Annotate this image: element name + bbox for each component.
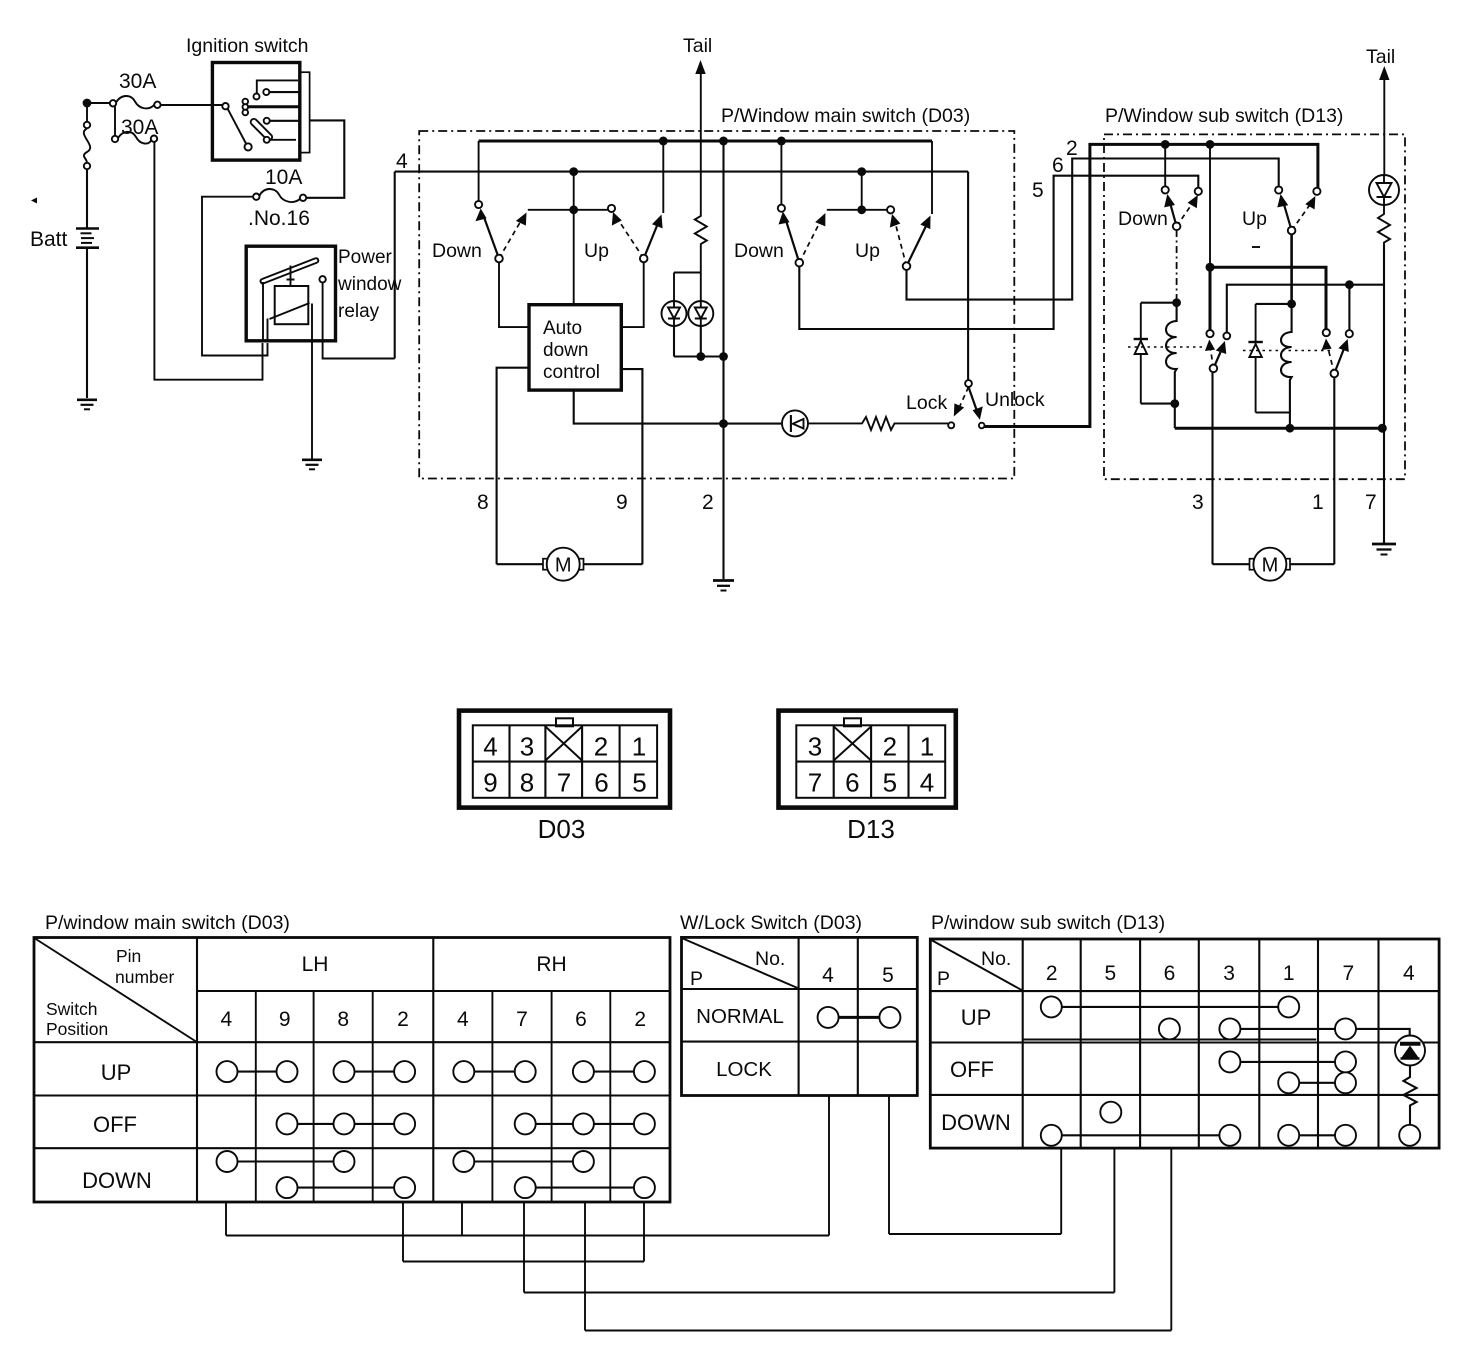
resistor R-lamp bbox=[858, 417, 898, 430]
sub bottom rail bbox=[1175, 427, 1383, 430]
wire RH6 to sub6 bbox=[585, 1148, 1171, 1330]
node dot down-relay top bbox=[1172, 298, 1181, 307]
svg-text:window: window bbox=[337, 274, 402, 295]
svg-text:1: 1 bbox=[1283, 962, 1295, 985]
svg-text:5: 5 bbox=[883, 768, 897, 798]
node dot top bus b bbox=[719, 137, 728, 146]
tail arrow center bbox=[695, 60, 705, 74]
wire battery to ground bbox=[86, 249, 88, 398]
wire fuse2 down to relay bbox=[154, 142, 262, 380]
svg-text:4: 4 bbox=[221, 1008, 233, 1031]
sub table grid bbox=[930, 939, 1439, 1148]
svg-text:2: 2 bbox=[883, 732, 897, 762]
node dot bus4 RH bbox=[857, 167, 866, 176]
main table diagonal bbox=[35, 939, 196, 1042]
svg-text:4: 4 bbox=[457, 1008, 469, 1031]
wire auto bottom to lamp rail bbox=[574, 390, 783, 424]
node dot top bus a bbox=[659, 137, 668, 146]
wire sub Up pivot to coil bbox=[1290, 234, 1293, 304]
battery feed junction node bbox=[83, 99, 92, 108]
OFF row contacts LH 9-8-2 bbox=[277, 1113, 416, 1134]
svg-text:8: 8 bbox=[477, 491, 489, 514]
RH Down lever solid bbox=[786, 219, 800, 263]
svg-text:2: 2 bbox=[594, 732, 608, 762]
relay contact bbox=[319, 276, 325, 282]
wire sub Down contact riser bbox=[1164, 144, 1166, 186]
ground relay bbox=[302, 460, 322, 470]
node dot bottom rail a bbox=[1286, 424, 1295, 433]
svg-text:5: 5 bbox=[632, 768, 646, 798]
wire pin2 common LH2-RH2 bbox=[403, 1202, 644, 1262]
tiny artifact mark bbox=[31, 198, 37, 204]
OFF row contacts RH 7-6-2 bbox=[515, 1113, 655, 1134]
up relay top rail bbox=[1256, 303, 1292, 305]
sub Down lever dashed bbox=[1177, 201, 1194, 226]
lock contact left bbox=[948, 422, 954, 428]
sub UP contacts 3-7-4 bbox=[1219, 1018, 1409, 1039]
relay coil right lead bbox=[311, 304, 313, 460]
LH Down lever dashed bbox=[499, 219, 522, 259]
svg-text:7: 7 bbox=[516, 1008, 528, 1031]
LED cathode rail bbox=[674, 326, 724, 357]
wire LED chain down to ground bbox=[1383, 245, 1385, 543]
pin1 wire bbox=[1333, 377, 1335, 564]
svg-text:number: number bbox=[115, 967, 175, 987]
sub UP contacts 2-1 bbox=[1041, 996, 1299, 1017]
LH Down lever solid bbox=[483, 215, 499, 259]
sub DOWN contacts 2-3 bbox=[1041, 1125, 1241, 1146]
svg-text:P/window main switch (D03): P/window main switch (D03) bbox=[45, 912, 290, 934]
svg-text:1: 1 bbox=[920, 732, 934, 762]
svg-text:NORMAL: NORMAL bbox=[696, 1005, 784, 1028]
connector D13 grid bbox=[796, 725, 945, 798]
ignition switch connector tab bbox=[300, 72, 310, 152]
connector D13 X cell bbox=[834, 727, 871, 761]
sub Down pivot bbox=[1173, 223, 1181, 231]
wire drop to fuse2 bbox=[114, 106, 116, 136]
svg-text:OFF: OFF bbox=[93, 1112, 137, 1137]
svg-text:5: 5 bbox=[1032, 179, 1044, 202]
svg-text:D13: D13 bbox=[847, 814, 895, 844]
svg-text:1: 1 bbox=[1312, 491, 1324, 514]
down relay coil K1 bbox=[1166, 303, 1177, 404]
wire fuse1 to ignition switch bbox=[161, 104, 226, 106]
down relay mech link bbox=[1128, 346, 1204, 348]
sub OFF contacts 1-7 bbox=[1278, 1072, 1356, 1093]
wire ignition to 10A fuse bbox=[306, 120, 344, 197]
NORMAL contacts 4-5 bbox=[818, 1007, 901, 1028]
LH Up lever dashed bbox=[617, 218, 644, 259]
sub DOWN contact 4 bbox=[1399, 1125, 1420, 1146]
svg-text:6: 6 bbox=[845, 768, 859, 798]
sub DOWN contact 5 bbox=[1100, 1102, 1121, 1123]
ignition switch output mid bbox=[249, 105, 300, 108]
RH Up pivot bbox=[903, 262, 911, 270]
fuse 10A bbox=[253, 194, 259, 200]
wire auto to pin9 bbox=[621, 369, 642, 564]
illumination lamp bbox=[782, 410, 808, 436]
svg-text:30A: 30A bbox=[121, 116, 158, 139]
node dot up-relay top bbox=[1287, 300, 1296, 309]
RH Down contact bbox=[778, 205, 785, 212]
svg-text:5: 5 bbox=[882, 964, 894, 987]
svg-text:Auto: Auto bbox=[543, 318, 582, 339]
relay contact A feed thick bbox=[1209, 144, 1211, 267]
svg-text:down: down bbox=[543, 340, 588, 361]
down relay bottom rail bbox=[1141, 404, 1175, 429]
svg-text:Ignition switch: Ignition switch bbox=[186, 35, 308, 57]
RH Up lever solid bbox=[907, 223, 928, 266]
svg-text:4: 4 bbox=[396, 150, 408, 173]
relay coil box bbox=[275, 286, 309, 324]
wire lock to sub bus 2 bbox=[985, 144, 1318, 426]
connector D03 body bbox=[459, 711, 670, 808]
ignition switch lever bbox=[228, 109, 247, 145]
ignition switch rotor contacts bbox=[243, 99, 249, 105]
window lock switch lever dashed bbox=[959, 387, 969, 409]
sub diode col4 bbox=[1395, 1036, 1425, 1066]
small dash mark bbox=[1252, 246, 1260, 248]
RH rail contact right bbox=[887, 206, 894, 213]
svg-text:Position: Position bbox=[46, 1019, 108, 1039]
svg-text:9: 9 bbox=[616, 491, 628, 514]
down relay top rail bbox=[1141, 302, 1177, 304]
svg-text:1: 1 bbox=[632, 732, 646, 762]
wire RH Down pivot to sub bus 5 bbox=[799, 176, 1198, 329]
wire resistor to LEDs bbox=[674, 250, 701, 301]
main table grid bbox=[34, 938, 670, 1203]
svg-text:M: M bbox=[555, 555, 572, 577]
main table frame bbox=[34, 938, 670, 1203]
svg-text:6: 6 bbox=[575, 1008, 587, 1031]
node dot bottom rail b bbox=[1378, 424, 1387, 433]
svg-text:D03: D03 bbox=[538, 814, 586, 844]
svg-text:Unlock: Unlock bbox=[985, 389, 1045, 411]
svg-text:Pin: Pin bbox=[116, 946, 141, 966]
node dot RH rail bbox=[857, 205, 866, 214]
sub Up contact right bbox=[1313, 188, 1320, 195]
connector D03 grid bbox=[473, 725, 657, 798]
svg-text:8: 8 bbox=[520, 768, 534, 798]
wire WLock5 to sub2 bbox=[889, 1096, 1061, 1235]
relay coil left lead bbox=[267, 319, 269, 342]
RH Down lever dashed bbox=[799, 220, 821, 263]
down relay clamp diode D1 bbox=[1134, 303, 1148, 404]
sub Down lever solid bbox=[1170, 201, 1177, 226]
power window relay box bbox=[246, 246, 335, 341]
P/Window main switch dashed box D03 bbox=[419, 131, 1014, 479]
svg-text:Batt: Batt bbox=[30, 228, 68, 251]
sub table diagonal bbox=[931, 940, 1021, 990]
svg-text:7: 7 bbox=[557, 768, 571, 798]
svg-text:P/Window sub switch (D13): P/Window sub switch (D13) bbox=[1105, 105, 1343, 127]
battery B1 bbox=[76, 229, 99, 248]
relay armature bbox=[261, 258, 319, 283]
wire node 4 riser bbox=[394, 172, 396, 359]
wire up-solid LH bbox=[662, 141, 664, 213]
svg-text:No.: No. bbox=[755, 948, 785, 970]
window lock pivot bbox=[965, 380, 972, 387]
motor RH M2 bbox=[1213, 548, 1335, 581]
sub Up lever dashed bbox=[1292, 203, 1312, 231]
top bus left drop bbox=[478, 141, 480, 201]
wire RH7 to sub5 bbox=[524, 1148, 1114, 1292]
sub Up pivot bbox=[1288, 227, 1296, 235]
top bus right drop bbox=[931, 141, 933, 214]
svg-text:3: 3 bbox=[1192, 491, 1204, 514]
LED L1 bbox=[662, 301, 687, 326]
svg-text:2: 2 bbox=[1046, 962, 1058, 985]
svg-text:4: 4 bbox=[822, 964, 834, 987]
RH Up lever dashed bbox=[895, 222, 907, 266]
svg-text:7: 7 bbox=[1342, 962, 1354, 985]
fusible link on battery line bbox=[84, 122, 90, 128]
node dot lamp rail bbox=[719, 419, 728, 428]
up relay mech link bbox=[1243, 350, 1332, 352]
svg-text:Tail: Tail bbox=[1366, 46, 1395, 68]
ignition switch lower contact a bbox=[264, 118, 270, 124]
wire LH Up pivot to auto bbox=[621, 262, 643, 327]
wire LH Down pivot to auto bbox=[499, 262, 529, 327]
fuse 30A no.1 bbox=[110, 100, 116, 106]
svg-text:4: 4 bbox=[920, 768, 934, 798]
svg-text:P/Window main switch (D03): P/Window main switch (D03) bbox=[721, 105, 970, 127]
ignition switch slot contact bbox=[251, 119, 272, 140]
svg-text:Tail: Tail bbox=[683, 35, 712, 57]
connector D03 X cell bbox=[545, 727, 582, 761]
sub LED L3 bbox=[1369, 175, 1399, 205]
relay contact switch A bbox=[1205, 330, 1230, 372]
wire RH Down contact riser bbox=[780, 141, 782, 205]
svg-text:30A: 30A bbox=[119, 70, 156, 93]
node dot bus4 LH bbox=[569, 167, 578, 176]
svg-text:Up: Up bbox=[584, 240, 609, 262]
fuse 30A no.2 bbox=[112, 136, 118, 142]
svg-text:4: 4 bbox=[483, 732, 497, 762]
wire auto to pin8 bbox=[497, 368, 529, 565]
P/Window sub switch dashed box D13 bbox=[1104, 134, 1405, 479]
connector D13 body bbox=[779, 711, 956, 808]
DOWN row contacts RH 7-2 bbox=[515, 1177, 655, 1198]
UP row contacts RH 6-2 bbox=[573, 1061, 655, 1082]
svg-text:P: P bbox=[690, 968, 703, 990]
svg-text:control: control bbox=[543, 362, 600, 383]
window lock switch lever solid bbox=[969, 387, 978, 412]
svg-text:Up: Up bbox=[1242, 208, 1267, 230]
relay contact lead to node 4 bbox=[323, 283, 395, 359]
sub table frame bbox=[930, 939, 1439, 1148]
UP row contacts LH 8-2 bbox=[334, 1061, 416, 1082]
pin2 vertical wire bbox=[722, 141, 724, 579]
wire sub Down pivot to relay coil bbox=[1176, 230, 1178, 303]
wire RH Up pivot to sub bus 6 bbox=[907, 159, 1279, 300]
wire lock pivot to bus4 bbox=[967, 172, 969, 381]
RH Down pivot bbox=[796, 259, 804, 267]
node dot LH rail bbox=[569, 205, 578, 214]
svg-text:8: 8 bbox=[337, 1008, 349, 1031]
wire RH rail to bus4 bbox=[861, 172, 863, 210]
svg-text:6: 6 bbox=[594, 768, 608, 798]
svg-text:relay: relay bbox=[338, 301, 380, 322]
svg-text:DOWN: DOWN bbox=[941, 1110, 1011, 1135]
top bus pin2 bbox=[479, 140, 932, 143]
LH Down pivot bbox=[495, 255, 503, 263]
relay contact switch B bbox=[1322, 329, 1353, 377]
W/Lock table frame bbox=[682, 937, 918, 1095]
sub resistor col4 bbox=[1404, 1066, 1417, 1125]
node dot down-relay bottom bbox=[1170, 399, 1179, 408]
node dot top bus c bbox=[777, 137, 786, 146]
connector D03 tab bbox=[556, 718, 573, 726]
motor LH M1 bbox=[497, 548, 643, 581]
ignition switch upper contact b bbox=[263, 89, 269, 95]
svg-text:RH: RH bbox=[536, 953, 566, 976]
svg-text:10A: 10A bbox=[265, 166, 302, 189]
relay armature pivot lead bbox=[262, 282, 264, 341]
svg-text:Switch: Switch bbox=[46, 999, 98, 1019]
tail wire center bbox=[700, 71, 702, 213]
svg-text:Lock: Lock bbox=[906, 392, 947, 414]
DOWN row contacts LH 9-2 bbox=[277, 1177, 416, 1198]
svg-text:Up: Up bbox=[855, 240, 880, 262]
wire pin4 common LH4-RH4-WLock4 bbox=[226, 1096, 829, 1236]
ignition switch box bbox=[212, 63, 299, 161]
wire resistor to lock contact bbox=[898, 422, 948, 424]
sub Up lever solid bbox=[1283, 201, 1292, 231]
svg-text:LH: LH bbox=[302, 953, 329, 976]
ignition switch input contact bbox=[222, 103, 228, 109]
lamp rail wire to resistor bbox=[808, 422, 858, 424]
resistor R-tail bbox=[695, 213, 707, 250]
svg-text:2: 2 bbox=[634, 1008, 646, 1031]
svg-text:W/Lock Switch (D03): W/Lock Switch (D03) bbox=[680, 912, 862, 934]
sub resistor R3 bbox=[1378, 205, 1390, 245]
lock contact right bbox=[979, 423, 985, 429]
ignition switch lower contact b bbox=[264, 137, 270, 143]
up relay clamp diode D2 bbox=[1248, 304, 1262, 413]
svg-text:Down: Down bbox=[734, 240, 784, 262]
contact A right lead bbox=[1227, 285, 1384, 333]
tail wire right bbox=[1383, 77, 1385, 175]
UP row contacts RH 4-7 bbox=[453, 1061, 535, 1082]
LED L2 bbox=[688, 301, 713, 326]
svg-text:OFF: OFF bbox=[950, 1057, 994, 1082]
svg-text:3: 3 bbox=[1223, 962, 1235, 985]
ground pin7 bbox=[1372, 544, 1396, 555]
sub Down right contact bbox=[1195, 188, 1202, 195]
W/Lock table grid bbox=[682, 937, 918, 1095]
wire to battery bbox=[86, 169, 88, 228]
DOWN row contacts RH 4-6 bbox=[453, 1151, 594, 1172]
svg-text:3: 3 bbox=[520, 732, 534, 762]
svg-text:M: M bbox=[1262, 555, 1279, 577]
sub OFF contacts 3-7 bbox=[1219, 1051, 1356, 1072]
UP row contacts LH 4-9 bbox=[217, 1061, 298, 1082]
svg-text:Down: Down bbox=[432, 240, 482, 262]
svg-text:6: 6 bbox=[1052, 154, 1064, 177]
node dot sub bus2 b bbox=[1206, 140, 1215, 149]
svg-text:No.: No. bbox=[981, 948, 1011, 970]
LH Down contact bbox=[475, 201, 482, 208]
svg-text:5: 5 bbox=[1105, 962, 1117, 985]
pin3 wire bbox=[1211, 372, 1213, 564]
svg-text:9: 9 bbox=[483, 768, 497, 798]
svg-text:DOWN: DOWN bbox=[82, 1168, 152, 1193]
relay coil diagonal bbox=[270, 303, 310, 319]
W/Lock diagonal bbox=[683, 938, 798, 988]
connector D13 tab bbox=[844, 718, 861, 726]
wire battery to fuses bbox=[87, 102, 110, 104]
node dot LED rail b bbox=[719, 352, 728, 361]
ground pin2 bbox=[713, 581, 734, 591]
ground battery bbox=[77, 400, 97, 410]
svg-text:6: 6 bbox=[1164, 962, 1176, 985]
bus pin4 horizontal bbox=[395, 171, 968, 173]
up relay bottom rail bbox=[1256, 413, 1290, 429]
thick rail to contact B left bbox=[1210, 267, 1326, 329]
ignition switch upper contact a bbox=[254, 94, 260, 100]
svg-text:9: 9 bbox=[279, 1008, 291, 1031]
svg-text:Power: Power bbox=[338, 247, 393, 268]
sub UP contact 6 bbox=[1159, 1018, 1180, 1039]
wire 10A to relay coil bbox=[202, 197, 268, 356]
svg-text:3: 3 bbox=[808, 732, 822, 762]
LH rail contact right bbox=[608, 205, 615, 212]
Auto down control box bbox=[529, 305, 621, 390]
DOWN row contacts LH 4-8 bbox=[217, 1151, 355, 1172]
svg-text:4: 4 bbox=[1403, 962, 1415, 985]
sub DOWN contacts 1-7 bbox=[1278, 1125, 1356, 1146]
svg-text:2: 2 bbox=[1066, 137, 1078, 160]
contact B right lead bbox=[1348, 285, 1350, 331]
tail arrow right bbox=[1379, 66, 1389, 80]
svg-text:2: 2 bbox=[702, 491, 714, 514]
LH Up pivot bbox=[640, 255, 648, 263]
sub Up contact left bbox=[1275, 186, 1282, 193]
svg-text:LOCK: LOCK bbox=[716, 1058, 772, 1081]
svg-text:P/window sub switch (D13): P/window sub switch (D13) bbox=[931, 912, 1165, 934]
svg-text:Down: Down bbox=[1118, 208, 1168, 230]
svg-text:UP: UP bbox=[101, 1060, 132, 1085]
node dot contactA feed bbox=[1206, 263, 1215, 272]
LH selector rail bbox=[528, 209, 612, 211]
node dot LED rail a bbox=[696, 352, 705, 361]
relay core tick bbox=[287, 266, 295, 287]
svg-text:2: 2 bbox=[397, 1008, 409, 1031]
svg-text:P: P bbox=[937, 968, 950, 990]
sub Down contact left bbox=[1162, 186, 1169, 193]
LH Up lever solid bbox=[644, 222, 659, 259]
up relay coil K2 bbox=[1281, 304, 1292, 413]
RH selector rail bbox=[827, 209, 891, 211]
svg-text:7: 7 bbox=[808, 768, 822, 798]
node dot rail284 bbox=[1345, 280, 1354, 289]
svg-text:.No.16: .No.16 bbox=[248, 207, 310, 230]
wire LH rail to auto control bbox=[573, 172, 575, 305]
svg-text:UP: UP bbox=[961, 1005, 992, 1030]
node dot sub bus2 a bbox=[1161, 140, 1170, 149]
svg-text:7: 7 bbox=[1365, 491, 1377, 514]
